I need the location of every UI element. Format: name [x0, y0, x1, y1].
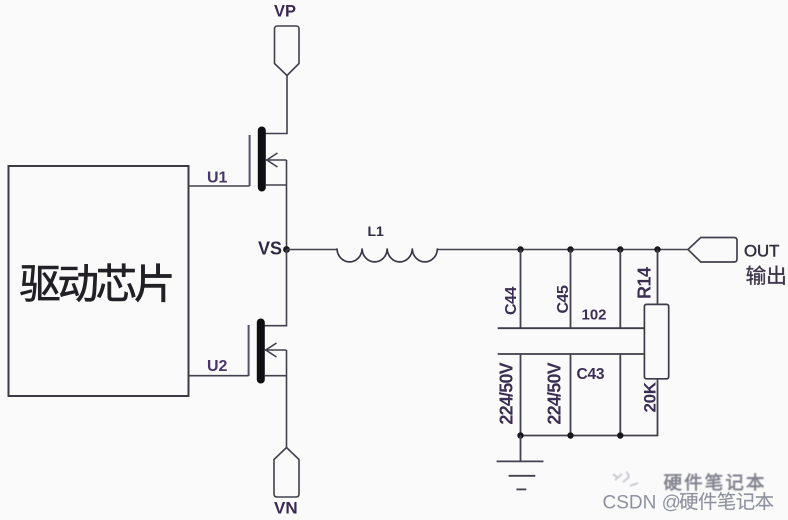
junction dot top rail at C45	[567, 246, 573, 252]
wire node VS to U2 drain	[263, 250, 287, 326]
svg-text:VS: VS	[258, 239, 282, 259]
capacitor C44/C45/C43 top plate	[498, 327, 645, 329]
svg-text:VN: VN	[274, 499, 298, 518]
svg-text:102: 102	[582, 306, 607, 323]
wire bottom rail	[521, 435, 622, 437]
wire R14 top lead	[657, 250, 659, 305]
transistor U1 (high-side MOSFET)	[250, 127, 287, 192]
wire C45 bottom lead	[570, 354, 572, 436]
wire C43 top lead	[619, 250, 621, 329]
node label VS	[258, 239, 282, 259]
watermark CSDN @硬件笔记本	[603, 492, 774, 513]
wire L1 to OUT connector	[437, 249, 688, 251]
wire U1 source/body to node VS	[286, 160, 288, 250]
wire C44 bottom lead	[520, 354, 522, 436]
driver chip label 驱动芯片	[21, 264, 172, 302]
svg-text:U1: U1	[207, 170, 228, 187]
svg-text:CSDN @: CSDN @	[603, 493, 681, 514]
wire node VS to L1	[287, 249, 338, 251]
label 输出 (output)	[746, 265, 784, 284]
power connector VP symbol	[275, 26, 300, 76]
svg-text:R14: R14	[635, 267, 655, 299]
svg-text:C44: C44	[503, 287, 520, 315]
wire C44 top lead	[520, 250, 522, 329]
wire driver chip to U2 gate	[189, 375, 249, 377]
transistor U2 (low-side MOSFET)	[249, 319, 287, 384]
svg-text:224/50V: 224/50V	[497, 362, 517, 424]
inductor L1	[337, 248, 437, 262]
watermark faint scribble mark	[613, 472, 638, 486]
node VS junction dot	[283, 246, 290, 253]
wire C45 top lead	[570, 250, 572, 329]
capacitor C44/C45/C43 bottom plate	[498, 353, 645, 355]
svg-text:OUT: OUT	[744, 242, 779, 261]
output connector OUT symbol	[688, 238, 737, 263]
junction dot top rail at C44	[517, 246, 523, 252]
junction dot top rail at R14	[654, 246, 660, 252]
driver chip box	[9, 166, 189, 396]
label C45	[555, 285, 572, 313]
label C44	[503, 287, 520, 315]
wire R14 bottom lead	[620, 379, 658, 436]
svg-text:L1: L1	[368, 223, 385, 239]
wire C43 bottom lead	[619, 354, 621, 436]
wire U2 source to VN	[286, 350, 288, 448]
junction dot bottom rail at ground	[517, 432, 523, 438]
label U2	[207, 358, 228, 375]
svg-text:U2: U2	[207, 358, 228, 375]
svg-text:C43: C43	[577, 366, 605, 383]
svg-text:C45: C45	[555, 285, 572, 313]
watermark distressed 硬件笔记本	[664, 473, 764, 490]
svg-text:20K: 20K	[641, 381, 660, 412]
label L1	[368, 223, 385, 239]
label 224/50V (C44 value)	[497, 362, 517, 424]
label U1	[207, 170, 228, 187]
junction dot bottom rail at C43	[617, 432, 623, 438]
power label VN	[274, 499, 298, 518]
label 224/50V (C45 value)	[545, 362, 565, 424]
junction dot top rail at C43	[617, 246, 623, 252]
svg-text:224/50V: 224/50V	[545, 362, 565, 424]
label 102 (C43 value)	[582, 306, 607, 323]
resistor R14 body	[644, 304, 668, 378]
wire VP to U1 drain	[265, 76, 287, 134]
svg-text:VP: VP	[274, 3, 296, 21]
power connector VN symbol	[274, 448, 299, 498]
label R14	[635, 267, 655, 299]
label OUT	[744, 242, 779, 261]
ground symbol	[497, 436, 544, 490]
wire driver chip to U1 gate	[189, 185, 250, 187]
junction dot bottom rail at C45	[567, 432, 573, 438]
label 20K (R14 value)	[641, 381, 660, 412]
label C43	[577, 366, 605, 383]
power label VP	[274, 3, 296, 21]
